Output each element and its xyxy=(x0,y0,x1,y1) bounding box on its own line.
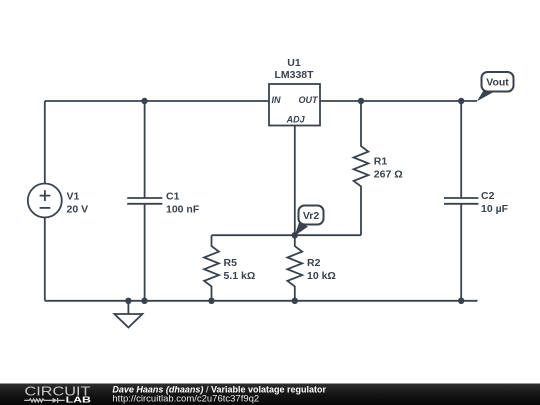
svg-text:R1: R1 xyxy=(374,156,388,168)
svg-text:ADJ: ADJ xyxy=(286,115,306,125)
svg-text:http://circuitlab.com/c2u76tc3: http://circuitlab.com/c2u76tc37f9q2 xyxy=(112,393,259,404)
svg-text:5.1 kΩ: 5.1 kΩ xyxy=(224,270,256,282)
svg-text:C2: C2 xyxy=(481,190,495,202)
svg-text:U1: U1 xyxy=(287,57,301,69)
svg-text:LM338T: LM338T xyxy=(274,69,314,81)
svg-text:Vr2: Vr2 xyxy=(303,210,320,222)
svg-text:20 V: 20 V xyxy=(67,203,89,215)
svg-text:IN: IN xyxy=(272,95,282,105)
svg-text:OUT: OUT xyxy=(299,95,320,105)
svg-text:C1: C1 xyxy=(166,191,180,203)
svg-text:R2: R2 xyxy=(307,257,321,269)
svg-text:10 kΩ: 10 kΩ xyxy=(307,270,336,282)
svg-text:100 nF: 100 nF xyxy=(166,204,200,216)
svg-text:Vout: Vout xyxy=(486,77,509,89)
svg-text:V1: V1 xyxy=(67,190,80,202)
svg-text:LAB: LAB xyxy=(66,396,92,405)
svg-text:267 Ω: 267 Ω xyxy=(374,169,403,181)
svg-text:10 µF: 10 µF xyxy=(481,203,509,215)
svg-text:R5: R5 xyxy=(224,257,238,269)
